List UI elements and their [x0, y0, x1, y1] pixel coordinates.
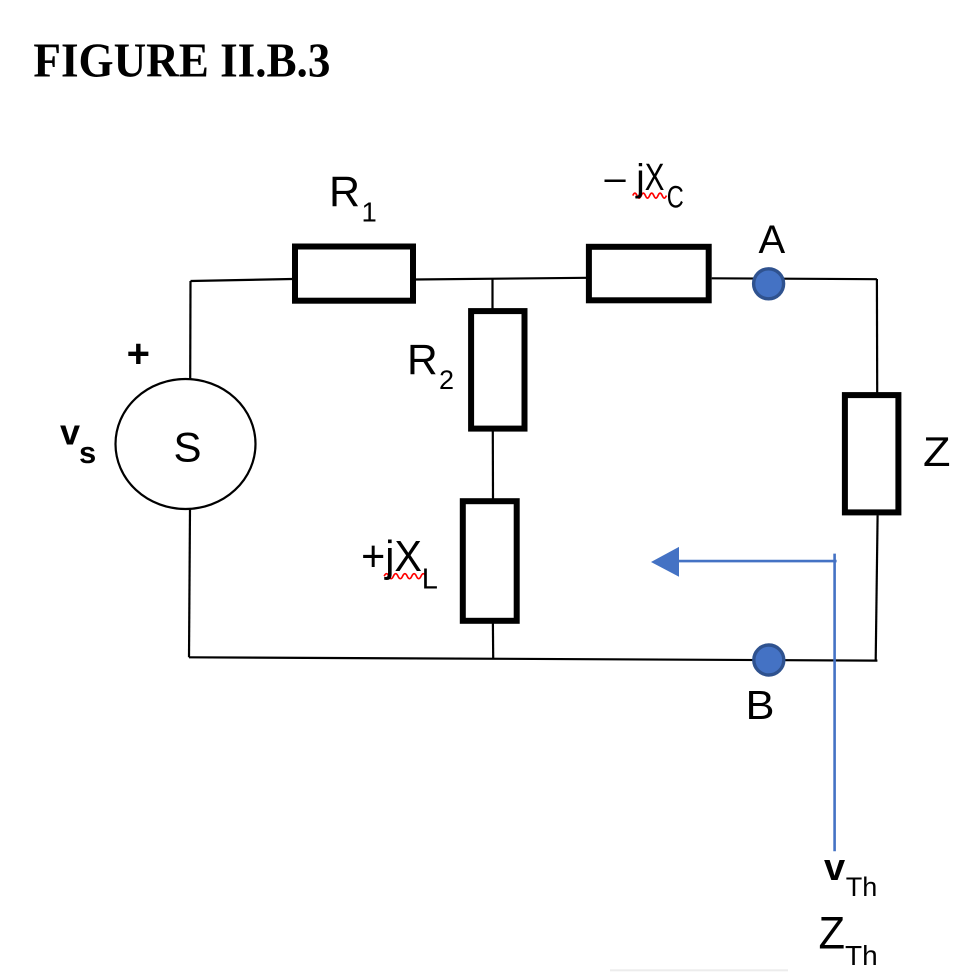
- svg-text:Th: Th: [845, 940, 878, 971]
- svg-text:A: A: [759, 218, 786, 262]
- svg-text:s: s: [79, 435, 96, 470]
- svg-text:v: v: [824, 847, 845, 889]
- svg-text:1: 1: [362, 197, 377, 228]
- svg-text:R: R: [329, 168, 360, 216]
- svg-text:– j: – j: [605, 158, 645, 200]
- svg-text:X: X: [645, 157, 665, 199]
- svg-text:+: +: [127, 332, 150, 376]
- svg-text:R: R: [407, 337, 438, 384]
- svg-text:v: v: [60, 412, 80, 453]
- svg-text:2: 2: [439, 365, 454, 395]
- svg-text:S: S: [174, 424, 202, 471]
- svg-text:Th: Th: [846, 872, 878, 902]
- svg-text:L: L: [422, 564, 438, 596]
- svg-text:FIGURE II.B.3: FIGURE II.B.3: [33, 33, 330, 88]
- svg-text:+jX: +jX: [361, 532, 422, 581]
- svg-text:Z: Z: [819, 908, 846, 959]
- svg-text:B: B: [746, 682, 775, 728]
- svg-text:C: C: [667, 179, 684, 215]
- svg-text:Z: Z: [923, 428, 951, 475]
